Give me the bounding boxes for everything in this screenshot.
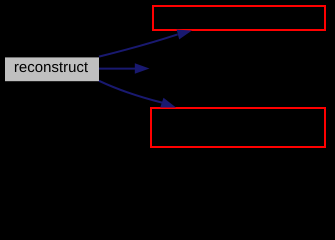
- node top (truncated, red border): [153, 6, 325, 30]
- edge to middle node: [99, 63, 150, 73]
- edge to bottom node: [99, 81, 176, 108]
- arrowhead of edge to top node: [177, 30, 192, 40]
- arrowhead of edge to bottom node: [160, 98, 176, 108]
- node bottom (truncated, red border): [151, 108, 325, 147]
- node reconstruct (current node, grey fill): [5, 57, 99, 81]
- arrowhead of edge to middle node: [135, 63, 150, 73]
- edge to top node: [99, 30, 192, 57]
